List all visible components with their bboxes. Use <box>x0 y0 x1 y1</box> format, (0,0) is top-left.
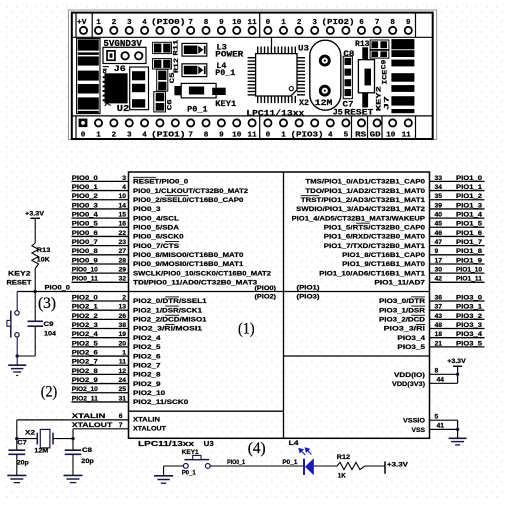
svg-text:PIO2_2: PIO2_2 <box>72 313 98 320</box>
ground reset <box>16 356 18 365</box>
svg-text:19: 19 <box>118 331 126 338</box>
svg-text:PIO2_4: PIO2_4 <box>72 331 98 338</box>
svg-text:PIO0_4/SCL: PIO0_4/SCL <box>133 215 179 222</box>
svg-text:35: 35 <box>435 193 443 200</box>
svg-text:41: 41 <box>437 423 445 430</box>
PCB bottom pin strip top line <box>72 115 433 117</box>
svg-text:PIO2_8: PIO2_8 <box>133 372 161 379</box>
svg-text:PIO1_4: PIO1_4 <box>456 212 482 219</box>
svg-text:PIO3_3/RI: PIO3_3/RI <box>384 326 426 333</box>
svg-text:PIO0_7: PIO0_7 <box>72 239 98 246</box>
svg-text:16: 16 <box>118 221 126 228</box>
svg-text:PIO3_3: PIO3_3 <box>456 322 482 329</box>
ground C7 <box>7 474 26 476</box>
svg-text:PIO0_2/SSEL0/CT16B0_CAP0: PIO0_2/SSEL0/CT16B0_CAP0 <box>133 197 244 204</box>
svg-text:1: 1 <box>96 132 101 140</box>
svg-text:PIO0_5/SDA: PIO0_5/SDA <box>133 224 179 231</box>
capacitor C8 <box>65 449 82 451</box>
pin wire PIO1_7 / pin 47 <box>430 245 485 247</box>
svg-text:(PIO0): (PIO0) <box>255 285 277 292</box>
IC internal divider VDD section <box>284 355 430 357</box>
PCB bottom row holes PIO1 <box>95 119 102 126</box>
pin wire PIO2_1 / pin 13 <box>72 309 129 311</box>
svg-text:2: 2 <box>112 132 117 140</box>
svg-text:27: 27 <box>118 248 126 255</box>
wire reset net to IC <box>17 291 128 293</box>
svg-text:C9: C9 <box>44 321 54 328</box>
svg-text:PIO1_7/TXD/CT32B0_MAT1: PIO1_7/TXD/CT32B0_MAT1 <box>324 243 425 250</box>
svg-text:18: 18 <box>435 331 443 338</box>
svg-text:7: 7 <box>119 422 123 429</box>
svg-text:RS: RS <box>355 132 367 140</box>
svg-text:R13: R13 <box>37 247 51 254</box>
svg-text:TMS/PIO1_0/AD1/CT32B1_CAP0: TMS/PIO1_0/AD1/CT32B1_CAP0 <box>305 179 425 186</box>
svg-text:36: 36 <box>435 294 443 301</box>
overlines on right PIO1 labels <box>301 195 319 197</box>
svg-text:4: 4 <box>142 19 147 27</box>
pin wire PIO0_6 / pin 22 <box>72 235 129 237</box>
svg-text:6: 6 <box>359 19 364 27</box>
svg-text:11: 11 <box>402 132 412 140</box>
svg-text:1: 1 <box>281 132 286 140</box>
VSS ground <box>457 420 459 438</box>
svg-text:(4): (4) <box>248 440 266 457</box>
svg-text:11: 11 <box>248 19 258 27</box>
svg-text:7: 7 <box>375 19 380 27</box>
svg-text:PIO0_3: PIO0_3 <box>133 206 161 213</box>
svg-text:PIO3_2/DCD: PIO3_2/DCD <box>379 317 425 324</box>
svg-text:32: 32 <box>118 276 126 283</box>
svg-text:XTALIN: XTALIN <box>133 417 160 424</box>
svg-text:PIO0_1: PIO0_1 <box>72 184 98 191</box>
svg-text:VSS: VSS <box>412 427 426 434</box>
svg-text:10: 10 <box>118 193 126 200</box>
pin wire PIO2_9 / pin 24 <box>72 383 129 385</box>
svg-text:29: 29 <box>118 267 126 274</box>
svg-text:8: 8 <box>204 19 209 27</box>
pin wire PIO3_3 / pin 48 <box>430 328 485 330</box>
wire C8 to ground <box>72 454 74 475</box>
pin wire PIO1_6 / pin 46 <box>430 235 485 237</box>
VSS pins 5 41 <box>430 419 458 421</box>
PCB LED L3 footprint <box>182 43 207 56</box>
svg-text:PIO0_6: PIO0_6 <box>72 230 98 237</box>
svg-text:24: 24 <box>118 377 126 384</box>
svg-text:PIO2_3/RI/MOSI1: PIO2_3/RI/MOSI1 <box>133 326 202 333</box>
svg-text:43: 43 <box>435 313 443 320</box>
LED arrows <box>299 448 312 455</box>
svg-text:26: 26 <box>118 313 126 320</box>
svg-text:7: 7 <box>188 132 193 140</box>
svg-text:C9: C9 <box>380 60 387 70</box>
pin wire PIO0_0 / pin 3 <box>72 180 129 182</box>
PCB chip U3 QFP <box>271 37 273 46</box>
svg-text:PIO3_1/DSR: PIO3_1/DSR <box>379 307 425 314</box>
svg-text:9: 9 <box>435 248 439 255</box>
svg-text:PIO2_10: PIO2_10 <box>133 390 165 397</box>
svg-text:PIO2_8: PIO2_8 <box>72 368 98 375</box>
svg-text:L4: L4 <box>289 440 299 447</box>
IC internal divider XTAL section <box>129 410 284 412</box>
svg-text:XTALOUT: XTALOUT <box>133 426 167 433</box>
svg-text:46: 46 <box>435 230 443 237</box>
PCB bottom row holes PIO3 and RS GD <box>264 119 271 126</box>
svg-text:RESET: RESET <box>344 109 373 118</box>
svg-text:22: 22 <box>118 230 126 237</box>
svg-text:TDO/PIO1_1/AD2/CT32B1_MAT0: TDO/PIO1_1/AD2/CT32B1_MAT0 <box>305 188 425 195</box>
pin wire PIO2_7 / pin 11 <box>72 364 129 366</box>
svg-text:17: 17 <box>435 257 443 264</box>
svg-text:PIO1_3: PIO1_3 <box>456 202 482 209</box>
svg-text:+3.3V: +3.3V <box>447 358 466 365</box>
svg-text:PIO2_6: PIO2_6 <box>133 353 161 360</box>
svg-text:10: 10 <box>232 19 242 27</box>
pin wire PIO2_10 / pin 25 <box>72 392 129 394</box>
svg-text:(2): (2) <box>41 384 58 401</box>
node xtal left junction <box>15 437 18 440</box>
pin wire PIO2_5 / pin 20 <box>72 346 129 348</box>
svg-text:R12: R12 <box>337 454 351 461</box>
PCB connector J6 3 bars <box>130 67 149 110</box>
wire key2 bottom <box>17 355 35 357</box>
wire +3.3V to R13 <box>34 218 36 243</box>
svg-text:PIO1_8: PIO1_8 <box>456 248 482 255</box>
svg-text:PIO3_0: PIO3_0 <box>456 294 482 301</box>
PCB left connector stripes <box>77 38 100 113</box>
svg-text:RESET: RESET <box>7 280 33 287</box>
svg-text:PIO0_6/SCK0: PIO0_6/SCK0 <box>133 234 184 241</box>
svg-text:15: 15 <box>118 212 126 219</box>
svg-text:PIO2_2/DCD/MISO1: PIO2_2/DCD/MISO1 <box>133 317 207 324</box>
pin wire PIO0_10 / pin 29 <box>72 272 129 274</box>
svg-text:VDD(IO): VDD(IO) <box>394 372 425 379</box>
wire LED to R12 <box>314 465 337 467</box>
svg-text:20p: 20p <box>81 458 94 465</box>
svg-text:9: 9 <box>219 132 224 140</box>
svg-text:PIO0_10: PIO0_10 <box>72 267 98 274</box>
svg-text:PIO1_11/AD7: PIO1_11/AD7 <box>374 280 425 287</box>
svg-text:(1): (1) <box>238 321 255 338</box>
svg-text:(PIO1): (PIO1) <box>297 284 320 291</box>
svg-text:PIO3_2: PIO3_2 <box>456 313 482 320</box>
svg-text:PIO0_0: PIO0_0 <box>45 284 71 291</box>
svg-text:PIO2_9: PIO2_9 <box>133 381 161 388</box>
svg-text:5: 5 <box>344 132 349 140</box>
PCB bottom strip separators <box>75 116 77 138</box>
capacitor C7 <box>8 449 25 451</box>
XTALOUT pin 7 <box>73 428 129 430</box>
pin wire PIO0_8 / pin 27 <box>72 254 129 256</box>
svg-text:12: 12 <box>118 368 126 375</box>
svg-text:PIO0_1: PIO0_1 <box>227 459 245 466</box>
svg-text:U3: U3 <box>298 44 309 53</box>
pin wire PIO1_0 / pin 33 <box>430 180 485 182</box>
pin wire PIO0_4 / pin 15 <box>72 217 129 219</box>
svg-text:(PIO0): (PIO0) <box>151 19 186 27</box>
svg-text:40: 40 <box>435 212 443 219</box>
svg-text:PIO1_1: PIO1_1 <box>456 184 482 191</box>
svg-text:PIO1_7: PIO1_7 <box>456 239 482 246</box>
svg-text:TRST/PIO1_2/AD3/CT32B1_MAT1: TRST/PIO1_2/AD3/CT32B1_MAT1 <box>301 197 425 204</box>
svg-text:RESET/PIO0_0: RESET/PIO0_0 <box>133 179 188 186</box>
svg-text:PIO1_6: PIO1_6 <box>456 230 482 237</box>
svg-text:P0_1: P0_1 <box>182 470 196 477</box>
svg-text:20p: 20p <box>17 460 29 467</box>
svg-text:8: 8 <box>435 368 439 375</box>
svg-text:PIO0_5: PIO0_5 <box>72 221 98 228</box>
svg-text:PIO1_10/AD6/CT16B1_MAT1: PIO1_10/AD6/CT16B1_MAT1 <box>319 270 425 277</box>
svg-text:1: 1 <box>122 349 126 356</box>
svg-text:33: 33 <box>435 175 443 182</box>
PCB top row holes PIO2 <box>264 27 271 34</box>
pin wire PIO0_11 / pin 32 <box>72 281 129 283</box>
XTALIN pin 6 <box>17 419 129 421</box>
svg-text:X2: X2 <box>25 430 35 437</box>
PCB right connector stripes <box>391 39 414 49</box>
svg-text:PIO0_8/MISO0/CT16B0_MAT0: PIO0_8/MISO0/CT16B0_MAT0 <box>133 252 244 259</box>
svg-text:3: 3 <box>312 19 317 27</box>
svg-text:PIO0_1/CLKOUT/CT32B0_MAT2: PIO0_1/CLKOUT/CT32B0_MAT2 <box>133 188 248 195</box>
PCB J6 label <box>103 66 109 68</box>
svg-text:PIO2_1/DSR/SCK1: PIO2_1/DSR/SCK1 <box>133 307 202 314</box>
svg-text:C7: C7 <box>17 440 27 447</box>
svg-text:PIO1_0: PIO1_0 <box>456 175 482 182</box>
ground KEY1 <box>154 475 173 477</box>
PCB LED L4 footprint <box>182 64 207 77</box>
svg-text:13: 13 <box>118 304 126 311</box>
svg-text:PIO2_11/SCK0: PIO2_11/SCK0 <box>133 399 188 406</box>
svg-text:PIO0_11: PIO0_11 <box>72 276 98 283</box>
svg-text:(3): (3) <box>38 295 56 312</box>
resistor R12 <box>337 462 365 469</box>
svg-text:1: 1 <box>281 19 286 27</box>
ground C8 <box>64 474 83 476</box>
svg-text:104: 104 <box>44 331 56 338</box>
svg-text:PIO3_5: PIO3_5 <box>397 344 425 351</box>
svg-text:ICE: ICE <box>381 70 388 85</box>
svg-text:PIO2_0/DTR/SSEL1: PIO2_0/DTR/SSEL1 <box>133 298 207 305</box>
svg-text:(PIO3): (PIO3) <box>291 132 324 140</box>
svg-text:C8: C8 <box>82 447 92 454</box>
svg-text:PIO0_0: PIO0_0 <box>72 175 98 182</box>
VDD +3.3V rail <box>457 366 459 383</box>
svg-text:PIO3_4: PIO3_4 <box>456 331 482 338</box>
PCB hole +V <box>80 27 87 34</box>
svg-text:PIO1_9: PIO1_9 <box>456 257 482 264</box>
svg-text:U3: U3 <box>204 439 214 448</box>
svg-text:28: 28 <box>118 257 126 264</box>
svg-text:VSSIO: VSSIO <box>403 418 425 425</box>
svg-text:P0_1: P0_1 <box>215 69 235 78</box>
svg-text:5: 5 <box>435 414 439 421</box>
pin wire PIO1_11 / pin 42 <box>430 281 485 283</box>
pin wire PIO2_0 / pin 2 <box>72 300 129 302</box>
pin wire PIO0_9 / pin 28 <box>72 263 129 265</box>
svg-text:SWCLK/PIO0_10/SCK0/CT16B0_MAT2: SWCLK/PIO0_10/SCK0/CT16B0_MAT2 <box>133 270 271 277</box>
overlines on left PIO0 labels <box>133 176 156 178</box>
svg-text:2: 2 <box>112 19 117 27</box>
PCB jumper pads <box>370 40 389 50</box>
svg-text:PIO2_5: PIO2_5 <box>133 344 161 351</box>
svg-text:4: 4 <box>122 184 126 191</box>
svg-text:6: 6 <box>119 413 123 420</box>
svg-text:0: 0 <box>81 132 86 140</box>
pin wire PIO3_5 / pin 21 <box>430 346 485 348</box>
svg-text:14: 14 <box>118 202 126 209</box>
wire XTALIN down <box>16 420 18 450</box>
pin wire PIO1_10 / pin 30 <box>430 272 485 274</box>
PCB top strip separators <box>75 13 77 37</box>
svg-text:PIO2_11: PIO2_11 <box>72 395 98 402</box>
svg-text:SWDIO/PIO1_3/AD4/CT32B1_MAT2: SWDIO/PIO1_3/AD4/CT32B1_MAT2 <box>296 206 425 213</box>
svg-text:C6: C6 <box>167 99 174 110</box>
svg-text:PIO1_10: PIO1_10 <box>456 267 482 274</box>
svg-text:38: 38 <box>118 322 126 329</box>
svg-text:KEY2: KEY2 <box>376 86 383 111</box>
svg-text:J5: J5 <box>333 109 343 118</box>
svg-text:P0_1: P0_1 <box>282 459 297 466</box>
svg-text:9: 9 <box>406 19 411 27</box>
svg-text:PIO1_5: PIO1_5 <box>456 221 482 228</box>
PCB resistor pads R11 <box>153 42 172 53</box>
svg-text:4: 4 <box>328 132 333 140</box>
svg-text:PIO0_9/MOSI0/CT16B0_MAT1: PIO0_9/MOSI0/CT16B0_MAT1 <box>133 261 244 268</box>
svg-text:PIO0_8: PIO0_8 <box>72 248 98 255</box>
svg-text:7: 7 <box>188 19 193 27</box>
svg-text:+3.3V: +3.3V <box>25 211 45 218</box>
resistor R13 <box>32 243 39 269</box>
power +3.3V LED <box>384 461 386 473</box>
svg-text:23: 23 <box>118 239 126 246</box>
pin wire PIO0_3 / pin 14 <box>72 208 129 210</box>
wire to crystal left <box>17 438 38 440</box>
svg-text:PIO2_0: PIO2_0 <box>72 294 98 301</box>
svg-text:0: 0 <box>266 19 271 27</box>
op IC U3 main box <box>129 172 430 438</box>
svg-text:TDI/PIO0_11/AD0/CT32B0_MAT3: TDI/PIO0_11/AD0/CT32B0_MAT3 <box>133 280 257 287</box>
IC internal vertical divider <box>283 172 285 438</box>
svg-text:PIO1_8/CT16B1_CAP0: PIO1_8/CT16B1_CAP0 <box>342 252 425 259</box>
svg-text:PIO0_4: PIO0_4 <box>72 212 98 219</box>
svg-text:GD: GD <box>370 132 382 140</box>
svg-text:PIO0_2: PIO0_2 <box>72 193 98 200</box>
svg-text:25: 25 <box>118 386 126 393</box>
pin wire PIO1_5 / pin 45 <box>430 226 485 228</box>
IC internal divider PIO0/PIO2 <box>129 291 430 293</box>
PCB resistor pads R12 <box>153 59 172 69</box>
svg-text:PIO2_10: PIO2_10 <box>72 386 98 393</box>
pin wire PIO1_9 / pin 17 <box>430 263 485 265</box>
svg-text:1: 1 <box>96 19 101 27</box>
svg-text:39: 39 <box>435 202 443 209</box>
pin wire PIO2_4 / pin 19 <box>72 337 129 339</box>
pin wire PIO3_2 / pin 43 <box>430 318 485 320</box>
svg-text:8: 8 <box>204 132 209 140</box>
svg-text:P0_1: P0_1 <box>187 105 208 114</box>
svg-text:(PIO3): (PIO3) <box>297 294 320 301</box>
pin wire PIO3_1 / pin 37 <box>430 309 485 311</box>
wire KEY1 to ground <box>164 465 184 467</box>
svg-text:PIO1_4/AD5/CT32B1_MAT3/WAKEUP: PIO1_4/AD5/CT32B1_MAT3/WAKEUP <box>292 215 426 222</box>
pin wire PIO2_2 / pin 26 <box>72 318 129 320</box>
svg-text:PIO3_1: PIO3_1 <box>456 304 482 311</box>
svg-text:PIO2_6: PIO2_6 <box>72 349 98 356</box>
pin wire PIO1_4 / pin 40 <box>430 217 485 219</box>
svg-text:C5: C5 <box>169 72 176 83</box>
PCB board image outer thin outline <box>68 10 436 140</box>
pin wire PIO0_5 / pin 16 <box>72 226 129 228</box>
svg-text:VDD(3V3): VDD(3V3) <box>392 381 425 388</box>
svg-text:XTALOUT: XTALOUT <box>72 422 113 429</box>
svg-text:8: 8 <box>390 19 395 27</box>
svg-text:PIO2_1: PIO2_1 <box>72 304 98 311</box>
pin wire PIO1_3 / pin 39 <box>430 208 485 210</box>
svg-text:J6: J6 <box>114 65 126 74</box>
node PIO0_0 junction <box>34 290 37 293</box>
svg-text:LPC11/13xx: LPC11/13xx <box>246 108 304 118</box>
svg-text:PIO2_7: PIO2_7 <box>133 362 161 369</box>
svg-text:48: 48 <box>435 322 443 329</box>
svg-text:KEY1: KEY1 <box>182 449 199 456</box>
svg-text:37: 37 <box>435 304 443 311</box>
pin wire PIO1_8 / pin 9 <box>430 254 485 256</box>
svg-text:3: 3 <box>127 19 132 27</box>
svg-text:10: 10 <box>232 132 242 140</box>
svg-text:0: 0 <box>266 132 271 140</box>
svg-text:12M: 12M <box>315 99 333 108</box>
svg-text:45: 45 <box>435 221 443 228</box>
node xtal right junction <box>71 437 74 440</box>
PCB bottom row square pad pin0 <box>79 119 88 128</box>
svg-text:PIO0_9: PIO0_9 <box>72 257 98 264</box>
svg-text:31: 31 <box>118 395 126 402</box>
svg-text:4: 4 <box>142 132 147 140</box>
svg-text:PIO3_4: PIO3_4 <box>397 335 425 342</box>
capacitor C9 <box>28 320 44 322</box>
pin wire PIO0_2 / pin 10 <box>72 199 129 201</box>
pin wire PIO0_7 / pin 23 <box>72 245 129 247</box>
PCB button KEY1 footprint <box>174 86 181 95</box>
svg-text:2: 2 <box>122 294 126 301</box>
svg-text:XTALIN: XTALIN <box>72 413 106 420</box>
svg-text:KEY2: KEY2 <box>8 271 31 278</box>
pin wire PIO2_8 / pin 12 <box>72 373 129 375</box>
VDD pins 8 44 <box>430 373 458 375</box>
svg-text:PIO3_0/DTR: PIO3_0/DTR <box>379 298 425 305</box>
svg-text:PIO2_7: PIO2_7 <box>72 359 98 366</box>
PCB capacitor pads C6 <box>154 92 166 112</box>
svg-text:(PIO2): (PIO2) <box>322 19 355 27</box>
wire R12 to +3.3V <box>365 465 385 467</box>
PCB top pin strip bottom line <box>72 36 433 38</box>
wire crystal right <box>53 438 73 440</box>
svg-text:44: 44 <box>437 377 445 384</box>
PCB chip U2 <box>105 73 128 103</box>
svg-text:PIO1_5/RTS/CT32B0_CAP0: PIO1_5/RTS/CT32B0_CAP0 <box>324 224 425 231</box>
pin wire PIO3_0 / pin 36 <box>430 300 485 302</box>
wire C9 branch <box>34 292 36 322</box>
wire XTALOUT down <box>72 429 74 450</box>
svg-text:PIO1_6/RXD/CT32B0_MAT0: PIO1_6/RXD/CT32B0_MAT0 <box>324 234 425 241</box>
svg-text:34: 34 <box>435 184 443 191</box>
overlines on PIO2 labels <box>165 296 179 298</box>
wire R13 to node <box>34 269 36 292</box>
svg-text:LPC11/13xx: LPC11/13xx <box>138 439 195 448</box>
svg-text:10: 10 <box>386 132 396 140</box>
svg-text:POWER: POWER <box>215 51 243 60</box>
svg-text:+3.3V: +3.3V <box>387 461 409 468</box>
svg-text:U2: U2 <box>117 104 130 114</box>
